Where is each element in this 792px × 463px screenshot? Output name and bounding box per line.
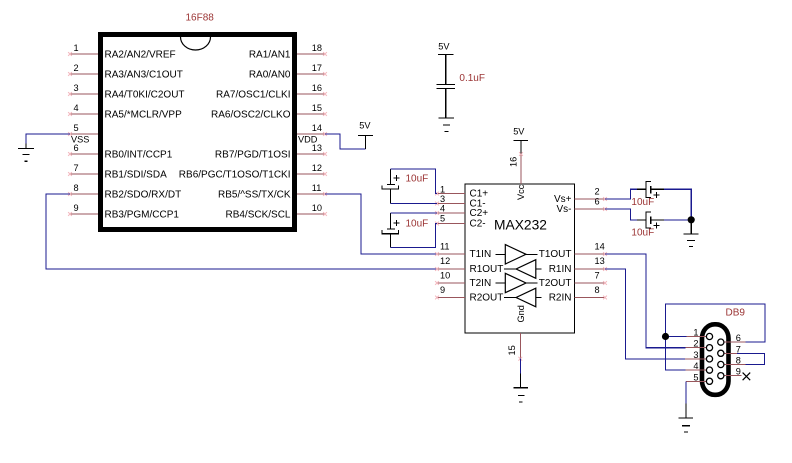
DB9 loop wire pins 6-1-4 — [666, 304, 765, 370]
svg-text:5: 5 — [693, 372, 698, 382]
U1 pin 16 wire — [216, 83, 327, 101]
svg-text:R2OUT: R2OUT — [470, 293, 504, 304]
svg-text:12: 12 — [312, 163, 322, 173]
U1 VDD pin name — [298, 134, 318, 144]
svg-text:0.1uF: 0.1uF — [459, 73, 485, 84]
J1 pin 1 — [687, 328, 713, 340]
capacitor C4 10uF — [631, 181, 659, 207]
U2 pin 11 (T1IN) — [435, 242, 491, 261]
svg-text:16: 16 — [312, 83, 322, 93]
svg-text:RA6/OSC2/CLKO: RA6/OSC2/CLKO — [211, 109, 291, 120]
U1 pin 15 wire — [211, 103, 327, 121]
svg-text:RA1/AN1: RA1/AN1 — [249, 49, 291, 60]
svg-text:9: 9 — [74, 203, 79, 213]
IC U1 16F88 value label — [186, 13, 215, 24]
svg-text:T2IN: T2IN — [470, 278, 492, 289]
svg-text:RA3/AN3/C1OUT: RA3/AN3/C1OUT — [105, 69, 183, 80]
wire Vs- to C5 — [605, 209, 646, 220]
wire Gnd pin15 to ground — [519, 359, 521, 374]
power 5V (Vcc) — [513, 127, 528, 154]
svg-text:8: 8 — [595, 285, 600, 295]
svg-text:C2+: C2+ — [470, 208, 489, 219]
svg-text:R1OUT: R1OUT — [470, 264, 504, 275]
U1 pin 5 wire — [68, 123, 98, 136]
wire C2- terminal to U2 pin3 C1- — [391, 189, 438, 204]
svg-text:16F88: 16F88 — [186, 13, 215, 24]
no-connect X at J1 pin9 — [743, 373, 751, 381]
capacitor C3 10uF — [382, 218, 428, 233]
U1 pin 2 wire — [68, 63, 183, 81]
U2 buffer T2 — [496, 273, 538, 292]
J1 pin 7 — [718, 344, 741, 356]
svg-text:R2IN: R2IN — [549, 293, 572, 304]
U2 pin 9 (R2OUT) — [435, 285, 503, 304]
ground GND4 (caps) — [684, 220, 699, 247]
svg-text:3: 3 — [440, 194, 445, 204]
svg-text:13: 13 — [595, 256, 605, 266]
wire C3- terminal to U2 pin5 C2- — [391, 224, 438, 248]
svg-text:4: 4 — [74, 103, 79, 113]
U1 pin 6 wire — [68, 143, 173, 161]
U2 buffer R1 — [504, 260, 542, 279]
wire Vs+ to C4 — [605, 189, 646, 199]
svg-text:R1IN: R1IN — [549, 264, 572, 275]
svg-text:6: 6 — [595, 197, 600, 207]
svg-text:RB2/SDO/RX/DT: RB2/SDO/RX/DT — [105, 189, 182, 200]
U1 pin 17 wire — [249, 63, 327, 81]
U2 pin 10 (T2IN) — [435, 271, 491, 290]
U2 pin 13 (R1IN) — [549, 256, 607, 275]
DB9 loop wire pins 7-8 — [737, 353, 764, 364]
svg-text:15: 15 — [507, 345, 517, 355]
svg-text:5: 5 — [440, 213, 445, 223]
svg-text:10: 10 — [312, 203, 322, 213]
wire R1IN to DB9 pin3 — [605, 269, 685, 359]
svg-text:RA4/T0KI/C2OUT: RA4/T0KI/C2OUT — [105, 89, 185, 100]
J1 pin 6 — [718, 333, 746, 345]
svg-text:1: 1 — [74, 43, 79, 53]
svg-text:Vs-: Vs- — [557, 204, 572, 215]
U1 pin 11 wire — [218, 183, 327, 201]
U2 pin 16 (Vcc) — [509, 152, 527, 200]
wire C4 to junction — [651, 189, 692, 220]
J1 pin 5 — [686, 372, 713, 384]
U1 pin 1 wire — [68, 43, 176, 61]
U1 pin 4 wire — [68, 103, 182, 121]
U1 pin 18 wire — [249, 43, 327, 61]
ground GND3 (MAX232) — [513, 374, 528, 402]
svg-text:5V: 5V — [359, 121, 371, 131]
svg-text:VDD: VDD — [298, 134, 318, 144]
U1 pin 14 wire — [297, 123, 327, 136]
wire C5 to junction — [651, 219, 692, 221]
svg-text:RA0/AN0: RA0/AN0 — [249, 69, 291, 80]
U2 pin 14 (T1OUT) — [539, 242, 607, 261]
U1 pin 13 wire — [215, 143, 327, 161]
wire C1 to ground — [445, 89, 447, 117]
U2 pin 15 (Gnd) — [507, 305, 526, 360]
svg-text:15: 15 — [312, 103, 322, 113]
svg-text:4: 4 — [440, 204, 445, 214]
U2 buffer T1 — [496, 245, 538, 264]
svg-text:Vcc: Vcc — [516, 184, 526, 200]
svg-text:2: 2 — [693, 339, 698, 349]
svg-text:18: 18 — [312, 43, 322, 53]
U1 pin 3 wire — [68, 83, 184, 101]
U1 pin 8 wire — [68, 183, 181, 201]
J1 pin 4 — [686, 361, 713, 373]
svg-text:C2-: C2- — [470, 219, 486, 230]
J1 pin 2 — [686, 339, 713, 351]
junction dot caps — [688, 216, 695, 223]
wire VDD pin14 to 5V — [325, 134, 365, 149]
wire RB5/TX to MAX232 T1IN — [325, 194, 437, 254]
IC U1 16F88 body — [101, 35, 295, 230]
svg-text:DB9: DB9 — [726, 308, 746, 319]
svg-text:7: 7 — [736, 344, 741, 354]
power 5V (VDD) — [358, 121, 373, 150]
U2 pin 1 (C1+) — [435, 184, 488, 199]
capacitor C1 0.1uF — [437, 73, 485, 89]
svg-text:T2OUT: T2OUT — [539, 278, 572, 289]
svg-text:7: 7 — [595, 271, 600, 281]
U1 pin 10 wire — [225, 203, 326, 221]
ground GND2 (0.1uF) — [439, 118, 454, 132]
U2 pin 2 (Vs+) — [554, 187, 607, 206]
power 5V (decoupling) — [438, 42, 454, 85]
svg-text:5V: 5V — [438, 42, 450, 52]
wire VSS pin5 to ground — [26, 134, 70, 143]
svg-text:RB1/SDI/SDA: RB1/SDI/SDA — [105, 169, 168, 180]
svg-text:VSS: VSS — [71, 134, 89, 144]
svg-text:RA2/AN2/VREF: RA2/AN2/VREF — [105, 49, 176, 60]
svg-text:5V: 5V — [513, 127, 525, 137]
svg-text:RB3/PGM/CCP1: RB3/PGM/CCP1 — [105, 209, 180, 220]
svg-text:12: 12 — [440, 256, 450, 266]
svg-text:14: 14 — [312, 123, 322, 133]
svg-text:4: 4 — [693, 361, 698, 371]
svg-text:10uF: 10uF — [631, 227, 654, 238]
capacitor C2 10uF — [382, 174, 428, 190]
DB9 label — [726, 308, 746, 319]
wire J1 pin5 to ground — [685, 381, 687, 403]
wire RB2/RX to MAX232 R1OUT — [46, 194, 437, 269]
junction dot DB9 pin1 — [662, 333, 669, 340]
svg-text:9: 9 — [736, 367, 741, 377]
svg-text:11: 11 — [440, 242, 450, 252]
U1 pin 9 wire — [68, 203, 179, 221]
svg-text:RB0/INT/CCP1: RB0/INT/CCP1 — [105, 149, 173, 160]
svg-text:5: 5 — [74, 123, 79, 133]
svg-text:MAX232: MAX232 — [494, 218, 547, 233]
svg-text:17: 17 — [312, 63, 322, 73]
svg-text:10uF: 10uF — [406, 218, 429, 229]
U1 VSS pin name — [71, 134, 89, 144]
connector J1 DB9 shell — [702, 324, 729, 395]
svg-text:RB6/PGC/T1OSO/T1CKI: RB6/PGC/T1OSO/T1CKI — [179, 169, 291, 180]
ground GND1 (VSS) — [18, 143, 34, 161]
wire C3+ terminal to U2 pin4 C2+ — [391, 213, 438, 229]
svg-text:10uF: 10uF — [631, 197, 654, 208]
svg-text:8: 8 — [736, 356, 741, 366]
U2 pin 4 (C2+) — [435, 204, 488, 220]
svg-text:RA7/OSC1/CLKI: RA7/OSC1/CLKI — [216, 89, 290, 100]
svg-text:2: 2 — [74, 63, 79, 73]
svg-text:11: 11 — [312, 183, 322, 193]
svg-text:1: 1 — [693, 328, 698, 338]
U2 pin 12 (R1OUT) — [435, 256, 503, 275]
svg-text:3: 3 — [74, 83, 79, 93]
svg-text:RA5/*MCLR/VPP: RA5/*MCLR/VPP — [105, 109, 183, 120]
svg-text:1: 1 — [440, 184, 445, 194]
U1 pin 12 wire — [179, 163, 327, 181]
svg-text:10uF: 10uF — [406, 174, 429, 185]
svg-text:7: 7 — [74, 163, 79, 173]
J1 pin 3 — [685, 350, 713, 362]
svg-text:RB4/SCK/SCL: RB4/SCK/SCL — [225, 209, 290, 220]
wire C2+ terminal to U2 pin1 C1+ — [391, 169, 438, 194]
svg-text:RB5/^SS/TX/CK: RB5/^SS/TX/CK — [218, 189, 291, 200]
wire T1OUT to DB9 pin2 — [605, 254, 686, 348]
svg-text:2: 2 — [595, 187, 600, 197]
svg-text:Gnd: Gnd — [516, 305, 526, 322]
U1 pin 7 wire — [68, 163, 167, 181]
svg-text:14: 14 — [595, 242, 605, 252]
IC U1 notch — [181, 37, 211, 50]
svg-text:RB7/PGD/T1OSI: RB7/PGD/T1OSI — [215, 149, 291, 160]
J1 pin 9 — [718, 367, 742, 379]
svg-text:9: 9 — [440, 285, 445, 295]
svg-text:10: 10 — [440, 271, 450, 281]
U2 pin 8 (R2IN) — [549, 285, 607, 304]
U2 buffer R2 — [504, 288, 542, 307]
U2 pin 5 (C2-) — [435, 213, 486, 229]
IC U2 MAX232 body — [465, 184, 575, 333]
svg-text:8: 8 — [74, 183, 79, 193]
U2 pin 6 (Vs-) — [557, 197, 607, 216]
ground GND5 (DB9) — [679, 403, 693, 432]
svg-text:6: 6 — [736, 333, 741, 343]
capacitor C5 10uF — [631, 212, 659, 238]
svg-text:16: 16 — [509, 157, 519, 167]
U2 pin 3 (C1-) — [435, 194, 486, 210]
U2 pin 7 (T2OUT) — [539, 271, 607, 290]
svg-text:T1IN: T1IN — [470, 249, 492, 260]
J1 pin 8 — [718, 356, 746, 368]
svg-text:3: 3 — [693, 350, 698, 360]
svg-text:T1OUT: T1OUT — [539, 249, 572, 260]
